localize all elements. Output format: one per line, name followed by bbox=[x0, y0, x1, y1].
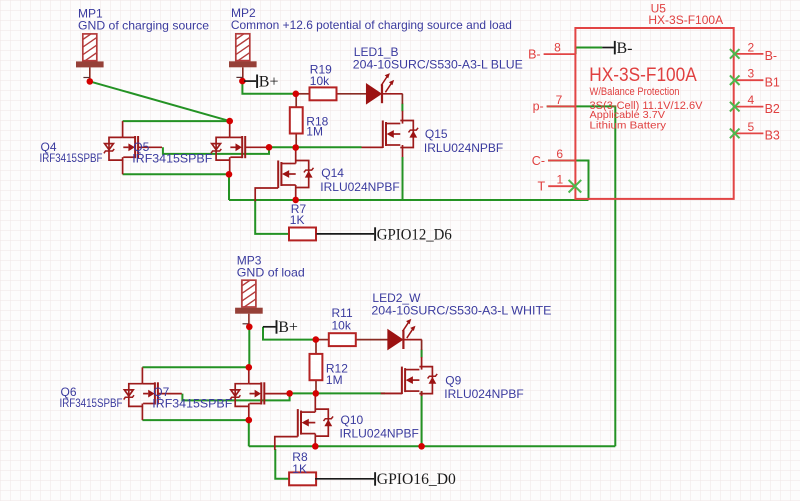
svg-text:8: 8 bbox=[554, 41, 561, 55]
svg-text:IRF3415SPBF: IRF3415SPBF bbox=[40, 151, 103, 165]
wire R8 to Q10 gate bbox=[275, 449, 289, 479]
junction Q10 source bbox=[312, 443, 319, 450]
transistor Q6 (IRF3415SPBF) P-MOSFET bbox=[124, 367, 182, 420]
local label GPIO12_D6 lead bbox=[317, 233, 375, 235]
mounting pin MP3 base bar bbox=[235, 308, 263, 314]
svg-text:B+: B+ bbox=[278, 319, 298, 336]
mounting pin MP2 pin tick bbox=[236, 76, 242, 78]
svg-text:Q14: Q14 bbox=[321, 166, 344, 180]
wire Q9 source drop bbox=[421, 391, 423, 446]
transistor Q14 (IRLU024NPBF) N-MOSFET bbox=[255, 161, 313, 202]
IC U5 HX-3S-F100A body bbox=[575, 28, 733, 199]
resistor R19 body bbox=[310, 87, 337, 100]
mounting pin MP1 base bar bbox=[76, 61, 104, 67]
U5 pin 1 (T) bbox=[538, 173, 576, 194]
svg-text:3: 3 bbox=[747, 67, 754, 81]
wire gate rail to Q9 bbox=[290, 392, 385, 394]
LED2 cathode corner bbox=[421, 340, 423, 350]
Q15 gate pin bbox=[362, 146, 383, 148]
svg-text:4: 4 bbox=[747, 93, 754, 107]
Q15 drain pin bbox=[402, 111, 404, 124]
resistor R11 body bbox=[329, 333, 356, 346]
U5 pin 6 (C-) bbox=[532, 147, 576, 168]
svg-text:1: 1 bbox=[556, 173, 563, 187]
wire top drain rail Q6-Q7 bbox=[142, 366, 248, 368]
svg-text:W/Balance Protection: W/Balance Protection bbox=[590, 86, 680, 98]
svg-text:Q15: Q15 bbox=[425, 127, 448, 141]
mounting pin MP1 pin tick bbox=[83, 77, 89, 79]
wire Q5 source drop bbox=[228, 174, 230, 200]
resistor R11 right stub / wire to LED2 bbox=[356, 339, 389, 341]
wire GND rail top section bbox=[229, 199, 589, 201]
LED LED1_B (204-10SURC/S530-A3-L BLUE) bbox=[367, 73, 403, 103]
svg-text:GND of load: GND of load bbox=[237, 265, 305, 279]
svg-text:2: 2 bbox=[747, 40, 754, 54]
svg-text:HX-3S-F100A: HX-3S-F100A bbox=[648, 13, 723, 27]
svg-text:204-10SURC/S530-A3-L WHITE: 204-10SURC/S530-A3-L WHITE bbox=[371, 304, 551, 318]
wire LED1 cathode jog bbox=[401, 104, 403, 112]
svg-text:Lithium Battery: Lithium Battery bbox=[590, 119, 667, 131]
transistor Q10 (IRLU024NPBF) N-MOSFET bbox=[275, 409, 333, 450]
local label GPIO16_D0 lead bbox=[315, 478, 374, 480]
svg-text:5: 5 bbox=[747, 120, 754, 134]
junction MP2 bbox=[239, 78, 246, 85]
svg-text:7: 7 bbox=[556, 93, 563, 107]
svg-text:T: T bbox=[538, 180, 546, 194]
svg-text:B-: B- bbox=[617, 40, 633, 57]
Q9 gate pin bbox=[385, 392, 402, 394]
svg-text:1K: 1K bbox=[290, 213, 305, 227]
junction source rail bbox=[226, 171, 233, 178]
resistor R12 top stub bbox=[315, 340, 317, 354]
svg-text:B3: B3 bbox=[765, 129, 780, 143]
junction bottom rail bbox=[246, 364, 253, 371]
junction Q14 source bbox=[292, 197, 299, 204]
junction R19/R18/B+ node bbox=[293, 91, 300, 98]
wire R7 to Q14 gate bbox=[255, 201, 289, 234]
wire MP1 to top rail (diagonal) bbox=[90, 81, 230, 121]
wire Q4 gate jog bbox=[163, 147, 269, 154]
wire source rail Q6-Q7 bbox=[142, 419, 248, 421]
junction source rail bottom bbox=[246, 417, 253, 424]
no-connect pin1 T bbox=[569, 180, 582, 193]
LED1 cathode corner bbox=[401, 94, 403, 104]
svg-text:B1: B1 bbox=[765, 75, 780, 89]
svg-text:GPIO16_D0: GPIO16_D0 bbox=[377, 471, 456, 488]
svg-text:1M: 1M bbox=[326, 373, 343, 387]
resistor R19 left stub bbox=[296, 93, 310, 95]
svg-text:Q9: Q9 bbox=[445, 373, 461, 387]
Q9 source pin bbox=[421, 391, 423, 396]
resistor R11 left stub bbox=[316, 339, 329, 341]
svg-text:IRF3415SPBF: IRF3415SPBF bbox=[60, 396, 123, 410]
mounting pin MP2 base bar bbox=[229, 61, 257, 67]
mounting pin MP2 pin stub bbox=[242, 67, 244, 81]
junction MP3 bbox=[246, 324, 253, 331]
local label B- lead bbox=[602, 47, 614, 49]
svg-text:1K: 1K bbox=[292, 462, 307, 476]
svg-text:6: 6 bbox=[556, 147, 563, 161]
wire top drain rail Q4-Q5 bbox=[123, 120, 230, 122]
svg-text:IRLU024NPBF: IRLU024NPBF bbox=[424, 141, 503, 155]
Q14 source pin bbox=[295, 185, 297, 200]
transistor Q15 (IRLU024NPBF) N-MOSFET bbox=[362, 121, 419, 149]
transistor Q4 (IRF3415SPBF) P-MOSFET bbox=[104, 121, 162, 174]
wire Q6 gate jog bbox=[182, 393, 289, 400]
local label B+ lead bbox=[263, 326, 276, 328]
svg-text:204-10SURC/S530-A3-L BLUE: 204-10SURC/S530-A3-L BLUE bbox=[353, 58, 523, 72]
junction R12/Q10 drain bbox=[313, 390, 320, 397]
wire pin7 p- wire bbox=[547, 106, 616, 446]
junction Q5 gate bbox=[266, 144, 273, 151]
local label B+ lead bbox=[244, 80, 256, 82]
junction top rail bbox=[226, 118, 233, 125]
Q14 drain pin bbox=[295, 148, 297, 164]
svg-text:Q10: Q10 bbox=[341, 413, 364, 427]
wire B+ to R11/R12 node bbox=[263, 327, 316, 340]
resistor R18 top stub bbox=[295, 94, 297, 107]
svg-text:B-: B- bbox=[765, 49, 778, 63]
svg-text:10k: 10k bbox=[310, 74, 330, 88]
svg-text:IRLU024NPBF: IRLU024NPBF bbox=[444, 387, 523, 401]
mounting pin MP1 pin stub bbox=[89, 67, 91, 81]
wire gate rail to Q15 bbox=[269, 146, 362, 148]
svg-text:GPIO12_D6: GPIO12_D6 bbox=[377, 226, 452, 243]
svg-text:HX-3S-F100A: HX-3S-F100A bbox=[589, 65, 697, 86]
resistor R8 body bbox=[289, 472, 316, 485]
junction Q7 gate bbox=[286, 390, 293, 397]
wire GND rail bottom section bbox=[249, 445, 616, 447]
svg-text:B-: B- bbox=[528, 47, 541, 61]
junction Q9 source bbox=[418, 443, 425, 450]
transistor Q9 (IRLU024NPBF) N-MOSFET bbox=[381, 367, 438, 395]
wire pin8 B- wire bbox=[576, 48, 603, 55]
wire Q15 source drop bbox=[402, 157, 404, 200]
mounting pin MP3 pin tick bbox=[243, 323, 249, 325]
svg-text:C-: C- bbox=[532, 154, 545, 168]
wire MP3 drop bbox=[248, 327, 250, 368]
Q10 source pin bbox=[314, 434, 316, 447]
mounting pin MP3 pin stub bbox=[248, 314, 250, 328]
wire source rail Q4-Q5 bbox=[123, 173, 229, 175]
svg-text:B2: B2 bbox=[765, 102, 780, 116]
mounting pin MP1 hatched body bbox=[81, 12, 101, 64]
mounting pin MP2 hatched body bbox=[234, 12, 254, 64]
U5 pin 7 (p-) bbox=[533, 93, 576, 114]
svg-text:1M: 1M bbox=[306, 124, 323, 138]
no-connect pin3 bbox=[730, 75, 740, 85]
resistor R19 right stub / wire to LED1 bbox=[337, 93, 367, 95]
U5 pin 3 (B1) bbox=[734, 67, 780, 90]
U5 pin 2 (B-) bbox=[734, 40, 777, 63]
Q10 drain pin bbox=[314, 393, 316, 412]
no-connect pin2 bbox=[730, 49, 740, 59]
transistor Q7 (IRF3415SPBF) P-MOSFET bbox=[230, 367, 288, 420]
wire C- pin elbow bbox=[548, 161, 589, 201]
svg-text:B+: B+ bbox=[259, 74, 279, 91]
junction MP1 bbox=[87, 78, 94, 85]
svg-text:10k: 10k bbox=[332, 318, 352, 332]
U5 pin 5 (B3) bbox=[734, 120, 780, 143]
svg-text:IRLU024NPBF: IRLU024NPBF bbox=[320, 180, 399, 194]
svg-text:GND of charging source: GND of charging source bbox=[78, 18, 209, 32]
junction R11/R12/B+ node bbox=[313, 336, 320, 343]
resistor R18 bottom stub bbox=[295, 134, 297, 148]
Q9 drain pin bbox=[421, 357, 423, 370]
no-connect pin4 bbox=[730, 102, 740, 112]
U5 pin 4 (B2) bbox=[734, 93, 780, 116]
transistor Q5 (IRF3415SPBF) P-MOSFET bbox=[211, 121, 269, 174]
resistor R7 body bbox=[289, 228, 316, 241]
wire MP2 to R19/R18 node bbox=[242, 81, 295, 94]
Q15 source pin bbox=[402, 145, 404, 157]
svg-text:IRLU024NPBF: IRLU024NPBF bbox=[340, 427, 419, 441]
resistor R12 body bbox=[310, 354, 323, 380]
wire Q7 source drop bbox=[248, 420, 250, 446]
resistor R18 body bbox=[290, 107, 303, 133]
no-connect pin5 bbox=[730, 129, 740, 139]
svg-text:Common +12.6 potential of char: Common +12.6 potential of charging sourc… bbox=[231, 18, 512, 32]
wire LED2 cathode jog bbox=[421, 350, 423, 358]
svg-text:IRF3415SPBF: IRF3415SPBF bbox=[132, 151, 212, 165]
svg-text:p-: p- bbox=[533, 100, 544, 114]
junction R18/Q14 drain bbox=[292, 144, 299, 151]
U5 pin 8 (B-) bbox=[528, 41, 575, 62]
svg-text:IRF3415SPBF: IRF3415SPBF bbox=[152, 396, 232, 410]
mounting pin MP3 hatched body bbox=[240, 258, 260, 310]
resistor R12 bottom stub bbox=[315, 380, 317, 394]
LED LED2_W (204-10SURC/S530-A3-L WHITE) bbox=[388, 319, 422, 349]
